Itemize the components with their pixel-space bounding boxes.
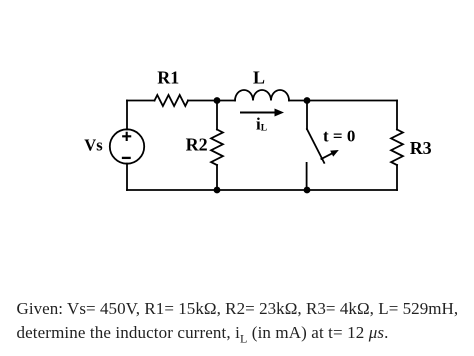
svg-text:Vs: Vs — [84, 136, 103, 155]
resistor R1 — [155, 95, 189, 106]
resistor R2 — [211, 130, 223, 166]
given text line 2 — [17, 323, 389, 346]
wire right branch upper (corner to R3) — [396, 101, 398, 130]
wire inductor to top-right corner — [289, 100, 397, 102]
node C (bottom, R2 junction) — [214, 187, 221, 194]
node B (top, switch junction) — [304, 97, 311, 104]
voltage source Vs circle — [110, 129, 144, 163]
svg-text:L: L — [253, 67, 265, 87]
switch upper lead — [306, 101, 308, 130]
node A (top, R2 junction) — [214, 97, 221, 104]
svg-text:R1: R1 — [157, 68, 179, 88]
wire left branch lower (source bottom to bottom wire) — [126, 164, 128, 190]
wire left branch upper (node to source top) — [126, 101, 128, 130]
given text line 1 — [17, 299, 459, 319]
svg-text:R2: R2 — [186, 135, 208, 155]
svg-text:iL: iL — [256, 115, 267, 134]
svg-text:t = 0: t = 0 — [323, 126, 355, 145]
switch blade — [307, 129, 324, 163]
wire right branch lower — [396, 165, 398, 190]
svg-text:R3: R3 — [410, 138, 432, 158]
current arrow iL — [240, 109, 284, 117]
switch lower lead — [306, 163, 308, 190]
plus sign — [123, 133, 130, 140]
wire R1 to node A — [188, 100, 235, 102]
wire R2 branch lower — [216, 165, 218, 190]
wire top-left horizontal (Vs to R1) — [127, 100, 155, 102]
resistor R3 — [391, 130, 403, 166]
inductor L — [235, 90, 289, 101]
node D (bottom, switch junction) — [304, 187, 311, 194]
bottom wire — [127, 189, 397, 191]
switch actuation arrow — [321, 150, 339, 159]
wire R2 branch upper — [216, 101, 218, 130]
minus sign — [123, 157, 130, 159]
